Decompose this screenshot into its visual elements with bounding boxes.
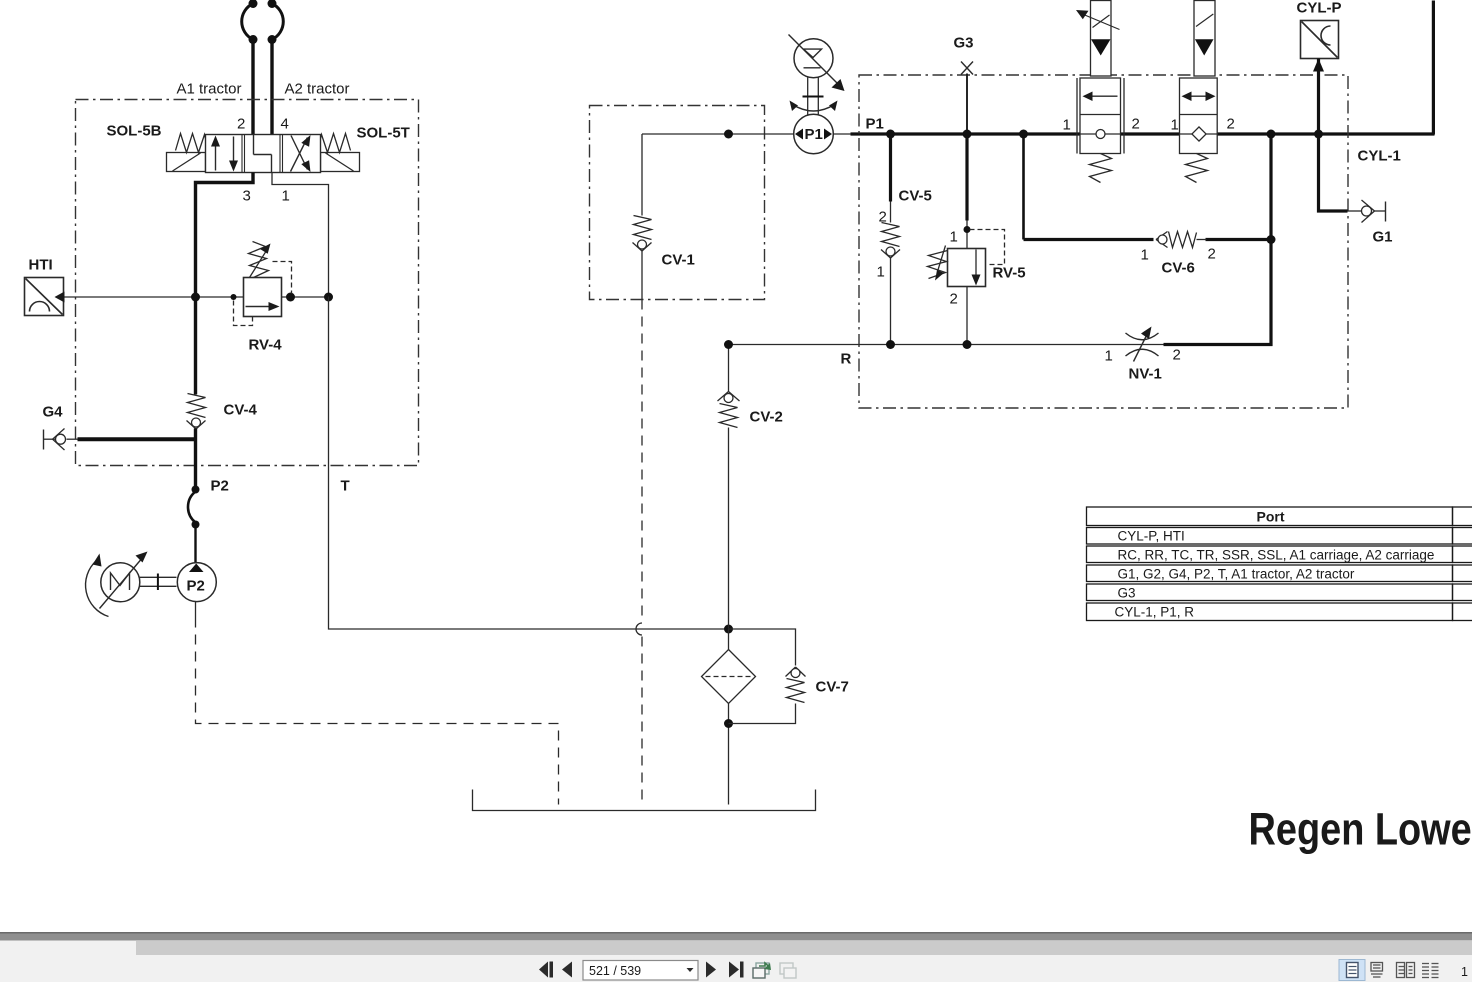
wire top line CV-1 to pump P1	[642, 133, 794, 135]
wire A1 tractor line	[251, 42, 254, 135]
check valve CV-6 line	[1022, 134, 1025, 240]
svg-text:G1: G1	[1373, 229, 1393, 246]
toolbar first page button	[539, 962, 548, 978]
pump P2	[177, 563, 216, 602]
check valve CV-4	[188, 394, 206, 418]
svg-text:2: 2	[1173, 347, 1181, 364]
solenoid SOL-5B coil	[167, 153, 206, 172]
svg-text:1: 1	[1063, 117, 1071, 134]
svg-text:1: 1	[1105, 348, 1113, 365]
spring below valve 1	[1090, 154, 1112, 183]
shaft coupling P1	[807, 78, 809, 116]
wire below CV-4 (thick)	[194, 429, 197, 488]
svg-text:CV-2: CV-2	[750, 409, 783, 426]
wire HTI line with arrow	[63, 296, 329, 298]
rocking rotation arrows	[793, 105, 835, 112]
motor for pump P1 (variable)	[794, 39, 833, 78]
spring below valve 2	[1186, 154, 1208, 183]
valve 1 cartridge body	[1076, 78, 1078, 154]
svg-text:T: T	[341, 478, 350, 495]
valve center cell closed path	[253, 135, 255, 155]
svg-text:CYL-1, P1, R: CYL-1, P1, R	[1115, 605, 1195, 620]
port G1 symbol	[1348, 210, 1362, 212]
needle valve NV-1	[1126, 333, 1159, 340]
check valve CV-5 branch	[889, 134, 892, 202]
svg-text:Regen Lower: Regen Lower	[1249, 804, 1472, 855]
toolbar layout icon continuous	[1371, 963, 1383, 978]
spring RV-5 adjustable	[928, 251, 948, 279]
toolbar last page button	[729, 962, 739, 978]
wire drain below pump P2 (dashed)	[195, 602, 197, 618]
svg-text:G4: G4	[43, 404, 64, 421]
check valve CV-7 bypass	[729, 629, 796, 666]
valve SOL-5 body (3-position 4-way)	[206, 135, 321, 173]
svg-text:CYL-P: CYL-P	[1297, 0, 1342, 17]
solenoid SOL-5T coil	[321, 153, 360, 172]
toolbar previous view icon	[753, 963, 771, 978]
relief valve RV-4 body	[244, 278, 282, 317]
svg-text:CV-4: CV-4	[224, 402, 258, 419]
toolbar page number box	[583, 961, 698, 981]
wire to pump P2	[194, 525, 196, 563]
wire vertical to CV-4 (thick)	[194, 297, 197, 395]
svg-text:P1: P1	[805, 126, 823, 143]
HTI symbol box	[25, 278, 64, 316]
svg-text:4: 4	[281, 116, 289, 133]
svg-text:3: 3	[243, 188, 251, 205]
svg-text:2: 2	[1132, 116, 1140, 133]
rotary coupler at top	[242, 4, 253, 40]
PDF viewer bottom toolbar	[0, 932, 1472, 941]
toolbar next page button	[706, 962, 716, 978]
svg-text:HTI: HTI	[29, 257, 53, 274]
port G3 vent	[961, 62, 973, 75]
toolbar prev page button	[562, 962, 572, 978]
svg-text:CV-1: CV-1	[662, 252, 695, 269]
svg-text:2: 2	[950, 291, 958, 308]
node P2 port dot and hose	[192, 486, 200, 494]
svg-text:CV-7: CV-7	[816, 679, 849, 696]
svg-text:R: R	[841, 351, 852, 368]
left manifold dash-dot boundary box	[76, 100, 419, 466]
node return junction	[724, 625, 733, 634]
wire R return line	[729, 344, 1165, 346]
port table	[1087, 507, 1472, 621]
wire RV-4 pilot dashed right	[273, 262, 292, 294]
wire RV-5 pilot dashed	[970, 230, 1005, 265]
pump P1 (bidirectional)	[794, 114, 834, 154]
wire A2 tractor line	[270, 42, 273, 135]
svg-text:RV-5: RV-5	[993, 265, 1026, 282]
toolbar layout icon two-page continuous	[1422, 964, 1439, 978]
svg-text:1: 1	[950, 229, 958, 246]
spring SOL-5T return	[319, 134, 351, 153]
svg-text:CV-5: CV-5	[899, 188, 932, 205]
node junction dots on HTI line	[191, 293, 200, 302]
svg-text:1: 1	[1461, 965, 1468, 979]
toolbar layout icon two pages	[1397, 963, 1415, 978]
wire T line down and across bottom	[329, 297, 729, 630]
solenoid cartridge valve 1 coil	[1091, 1, 1112, 77]
CV-1 dash-dot boundary box	[590, 106, 765, 300]
svg-text:NV-1: NV-1	[1129, 366, 1162, 383]
svg-text:G3: G3	[1118, 586, 1136, 601]
wire CYL-1 branch down to G1	[1319, 134, 1348, 211]
solenoid cartridge valve 2 coil	[1194, 1, 1215, 77]
svg-text:G3: G3	[954, 35, 974, 52]
check valve CV-2	[728, 345, 730, 393]
check valve CV-1	[641, 134, 643, 216]
node main line junctions	[886, 130, 895, 139]
svg-text:2: 2	[1208, 246, 1216, 263]
wire CV-1 drain dashed with crossover hop	[641, 300, 643, 622]
svg-text:SOL-5T: SOL-5T	[357, 125, 410, 142]
svg-text:1: 1	[877, 264, 885, 281]
relief valve RV-5 branch	[965, 134, 968, 221]
filter	[728, 629, 730, 650]
rotation arrow	[86, 561, 109, 617]
svg-text:A1 tractor: A1 tractor	[177, 81, 242, 98]
svg-text:2: 2	[1227, 116, 1235, 133]
port CYL-P symbol box	[1301, 21, 1339, 59]
wire RV-4 pilot dashed left drain	[234, 301, 253, 326]
wire port 3 path (thick)	[196, 173, 254, 297]
port G4 symbol	[43, 430, 45, 450]
svg-text:CV-6: CV-6	[1162, 260, 1195, 277]
svg-text:RV-4: RV-4	[249, 337, 283, 354]
svg-text:1: 1	[1141, 247, 1149, 264]
variable displacement arrow through motor	[100, 557, 144, 609]
svg-text:RC, RR, TC, TR, SSR, SSL, A1 c: RC, RR, TC, TR, SSR, SSL, A1 carriage, A…	[1118, 548, 1435, 563]
wire CYL-P arrow up	[1317, 59, 1320, 135]
svg-text:521 / 539: 521 / 539	[589, 964, 641, 978]
svg-text:SOL-5B: SOL-5B	[107, 123, 162, 140]
svg-text:G1, G2, G4, P2, T, A1 tractor,: G1, G2, G4, P2, T, A1 tractor, A2 tracto…	[1118, 567, 1355, 582]
svg-text:CYL-1: CYL-1	[1358, 148, 1401, 165]
wire main P1 pressure line	[833, 133, 852, 135]
svg-text:CYL-P, HTI: CYL-P, HTI	[1118, 529, 1185, 544]
variable arrow through P1 motor	[789, 35, 839, 85]
valve 2 cartridge body	[1180, 78, 1218, 154]
svg-text:P2: P2	[187, 578, 205, 595]
tank reservoir	[473, 790, 816, 811]
svg-text:P1: P1	[866, 116, 884, 133]
svg-text:A2 tractor: A2 tractor	[285, 81, 350, 98]
spring SOL-5B return	[176, 134, 208, 153]
svg-text:2: 2	[879, 209, 887, 226]
shaft coupling P2	[140, 576, 177, 578]
svg-text:P2: P2	[211, 478, 229, 495]
wire port 1 path to T	[272, 173, 329, 297]
right manifold dash-dot boundary box	[859, 75, 1348, 408]
svg-text:1: 1	[282, 188, 290, 205]
valve right cell crossed arrows	[291, 138, 308, 172]
toolbar layout icon single page (active)	[1339, 960, 1365, 981]
svg-text:Port: Port	[1257, 509, 1285, 525]
toolbar next view icon (disabled)	[780, 963, 796, 978]
svg-text:2: 2	[237, 116, 245, 133]
motor M for pump P2	[101, 563, 140, 602]
wire G4 line (thick)	[67, 438, 79, 440]
wire NV-1 out to riser (thick)	[1164, 343, 1273, 346]
svg-text:1: 1	[1171, 117, 1179, 134]
valve left cell arrows	[215, 142, 217, 171]
spring RV-4 adjustable	[249, 242, 269, 278]
